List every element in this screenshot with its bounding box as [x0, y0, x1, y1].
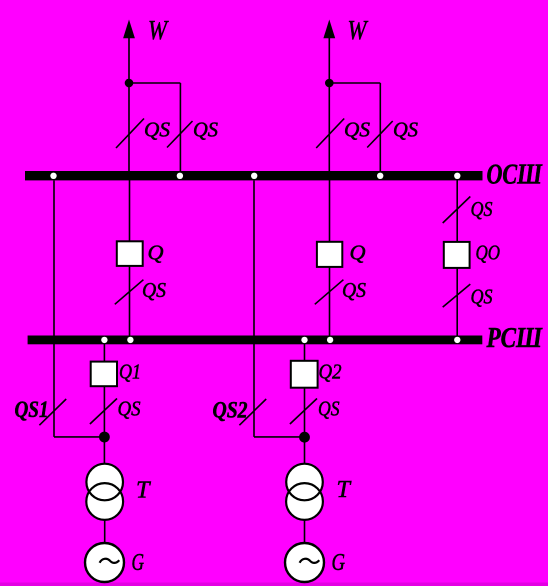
- disconnector QS coupler lower: [443, 284, 471, 307]
- wire QS1 bypass riser: [53, 181, 55, 437]
- svg-text:QS: QS: [471, 285, 493, 309]
- svg-text:РСШ: РСШ: [486, 323, 544, 354]
- disconnector QS below Q1: [90, 399, 117, 425]
- wire T1-G1: [104, 521, 106, 545]
- svg-text:QS: QS: [344, 118, 370, 142]
- node on bottom bus (Q2 branch): [301, 337, 307, 343]
- svg-text:QS: QS: [118, 397, 141, 421]
- disconnector QS on W1 branch: [167, 121, 193, 148]
- node on bottom bus (feeder1): [127, 337, 133, 343]
- node on top bus (coupler): [454, 173, 460, 179]
- breaker Q1: [91, 362, 117, 387]
- svg-text:Q: Q: [350, 240, 366, 264]
- wire Q feeder2 upper: [329, 180, 331, 242]
- wire Q2 lower: [304, 388, 306, 464]
- disconnector QS on W2 main: [316, 119, 344, 149]
- svg-text:W: W: [348, 15, 369, 45]
- disconnector QS below Q (feeder1): [115, 280, 144, 305]
- svg-text:W: W: [148, 15, 169, 45]
- svg-text:ОСШ: ОСШ: [487, 160, 544, 191]
- svg-text:QS: QS: [471, 197, 493, 221]
- svg-text:Q1: Q1: [119, 360, 141, 384]
- node on top bus (W1 branch): [177, 173, 183, 179]
- svg-text:G: G: [332, 550, 346, 576]
- svg-text:QS: QS: [342, 278, 366, 302]
- wire W1 jumper: [129, 82, 180, 84]
- wire Q1 lower: [103, 386, 105, 464]
- breaker QO (bypass coupler): [444, 242, 470, 268]
- svg-text:QO: QO: [476, 241, 501, 265]
- svg-text:Q: Q: [148, 240, 164, 264]
- svg-text:T: T: [136, 477, 151, 503]
- wire W1 main drop: [128, 37, 130, 172]
- wire coupler upper: [456, 180, 458, 242]
- disconnector QS on W1 main: [116, 119, 144, 149]
- disconnector QS on W2 branch: [367, 121, 393, 148]
- node T1 junction: [99, 432, 110, 443]
- line W1 arrow: [123, 20, 135, 39]
- disconnector QS below Q2: [290, 399, 317, 425]
- wire W2 jumper: [329, 82, 380, 84]
- wire Q1 upper: [103, 344, 105, 362]
- svg-text:T: T: [337, 477, 352, 503]
- svg-text:QS: QS: [393, 118, 418, 142]
- breaker Q2: [291, 361, 318, 388]
- wire Q feeder1 lower: [129, 266, 131, 336]
- wire T2-G2: [304, 521, 306, 545]
- svg-text:Q2: Q2: [319, 360, 342, 384]
- svg-text:QS: QS: [193, 118, 218, 142]
- svg-text:QS2: QS2: [213, 398, 248, 423]
- svg-text:G: G: [132, 550, 145, 576]
- generator G2: [285, 543, 324, 582]
- wire W2 main drop: [328, 37, 330, 172]
- disconnector QS2: [239, 399, 266, 425]
- wire QS2 bypass riser: [253, 181, 255, 437]
- disconnector QS below Q (feeder2): [315, 280, 344, 305]
- node on top bus (QS2 riser): [251, 173, 257, 179]
- svg-text:QS1: QS1: [15, 397, 49, 422]
- transformer T1: [86, 464, 123, 520]
- node W1 tap junction: [125, 79, 134, 88]
- wire Q feeder2 lower: [329, 267, 331, 336]
- node on bottom bus (feeder2): [327, 337, 333, 343]
- svg-text:QS: QS: [144, 118, 170, 142]
- transformer T2: [286, 464, 323, 520]
- node on bottom bus (Q1 branch): [101, 337, 107, 343]
- svg-text:QS: QS: [142, 278, 166, 302]
- node T2 junction: [299, 432, 310, 443]
- disconnector QS1: [39, 399, 66, 425]
- svg-text:QS: QS: [318, 397, 340, 421]
- wire QS2 bypass horizontal: [254, 436, 305, 438]
- generator G1: [85, 543, 124, 582]
- wire W1 branch drop: [179, 83, 181, 172]
- wire QS1 bypass horizontal: [54, 436, 104, 438]
- wire Q feeder1 upper: [129, 180, 131, 242]
- node W2 tap junction: [325, 79, 334, 88]
- wire Q2 upper: [304, 344, 306, 362]
- line W2 arrow: [323, 20, 335, 39]
- wire coupler lower: [456, 268, 458, 336]
- node on bottom bus (coupler): [454, 337, 460, 343]
- busbar OSSH (top): [25, 171, 483, 180]
- node on top bus (W2 branch): [377, 173, 383, 179]
- busbar RSSH (bottom): [28, 336, 483, 345]
- wire W2 branch drop: [379, 83, 381, 172]
- node on top bus (QS1 riser): [50, 173, 56, 179]
- disconnector QS coupler upper: [443, 197, 471, 224]
- breaker Q (feeder2): [317, 242, 342, 267]
- breaker Q (feeder1): [117, 241, 143, 266]
